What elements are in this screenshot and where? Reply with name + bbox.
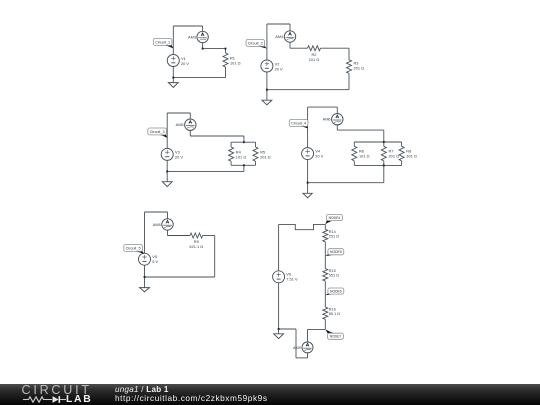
- svg-text:201 Ω: 201 Ω: [354, 66, 365, 71]
- svg-text:5 V: 5 V: [152, 259, 158, 264]
- svg-text:NODE4: NODE4: [329, 216, 341, 220]
- svg-text:AM6: AM6: [323, 117, 331, 122]
- svg-text:Circuit_5: Circuit_5: [126, 246, 141, 250]
- svg-text:R15: R15: [329, 269, 336, 273]
- svg-text:201 Ω: 201 Ω: [260, 154, 271, 159]
- svg-text:101 Ω: 101 Ω: [236, 154, 247, 159]
- svg-text:301 Ω: 301 Ω: [406, 154, 417, 159]
- svg-text:101 Ω: 101 Ω: [309, 57, 320, 62]
- svg-text:AM4: AM4: [275, 34, 284, 39]
- svg-text:20 V: 20 V: [315, 154, 323, 159]
- svg-text:7.51 V: 7.51 V: [286, 277, 298, 282]
- svg-text:101 Ω: 101 Ω: [230, 60, 241, 65]
- svg-text:Circuit_1: Circuit_1: [155, 40, 170, 44]
- svg-text:20 V: 20 V: [275, 66, 283, 71]
- svg-text:AM8: AM8: [153, 222, 161, 227]
- svg-text:NODE7: NODE7: [330, 335, 342, 339]
- svg-text:Circuit_3: Circuit_3: [150, 130, 165, 134]
- svg-text:Circuit_2: Circuit_2: [248, 41, 263, 45]
- svg-text:R16: R16: [329, 307, 336, 311]
- svg-text:551 Ω: 551 Ω: [329, 273, 339, 277]
- svg-text:251 Ω: 251 Ω: [329, 235, 339, 239]
- svg-text:AM3: AM3: [188, 34, 196, 39]
- svg-text:20 V: 20 V: [181, 61, 189, 66]
- svg-text:AM9: AM9: [293, 345, 301, 350]
- svg-text:20 V: 20 V: [175, 154, 183, 159]
- svg-text:201 Ω: 201 Ω: [389, 154, 400, 159]
- svg-text:621.1 Ω: 621.1 Ω: [189, 244, 203, 249]
- svg-text:101 Ω: 101 Ω: [359, 154, 370, 159]
- svg-text:NODE5: NODE5: [330, 250, 342, 254]
- svg-text:AM5: AM5: [176, 122, 184, 127]
- svg-text:R14: R14: [329, 230, 336, 234]
- svg-text:Circuit_4: Circuit_4: [291, 121, 306, 125]
- svg-text:NODE6: NODE6: [330, 289, 342, 293]
- svg-text:85.1 Ω: 85.1 Ω: [329, 312, 340, 316]
